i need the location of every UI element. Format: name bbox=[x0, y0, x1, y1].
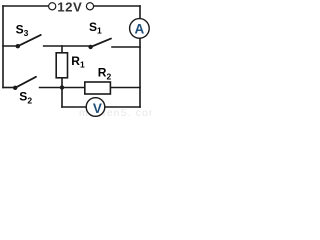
junction node below R1 bbox=[60, 85, 64, 89]
voltmeter V bbox=[86, 98, 105, 117]
battery terminal right bbox=[86, 3, 93, 10]
wire middle row: S3 contact to S1 pivot bbox=[44, 45, 89, 47]
switch S1 blade bbox=[91, 39, 111, 47]
wire right rail upper (top corner to ammeter) bbox=[139, 6, 141, 18]
wire middle row: left rail to S3 pivot bbox=[3, 45, 18, 47]
background bbox=[0, 0, 152, 119]
switch S3 pivot dot bbox=[16, 44, 20, 48]
wire left rail bbox=[2, 6, 4, 88]
wire bottom row: R2 to right rail bbox=[111, 87, 141, 89]
wire bottom row: S2 contact to R2 bbox=[40, 87, 85, 89]
switch S3 blade bbox=[18, 35, 41, 46]
wire R1 bottom lead bbox=[61, 78, 63, 88]
resistor R1 bbox=[56, 53, 67, 78]
battery terminal left bbox=[49, 3, 56, 10]
wire voltmeter branch: V circle to right rail bbox=[105, 106, 140, 108]
switch S2 pivot dot bbox=[13, 86, 17, 90]
wire bottom row: left rail to S2 pivot bbox=[3, 87, 15, 89]
resistor R2 bbox=[85, 82, 111, 94]
svg-text:A: A bbox=[135, 21, 145, 36]
wire voltmeter branch: corner to V circle bbox=[62, 106, 86, 108]
wire right rail lower (ammeter to bottom corner) bbox=[139, 39, 141, 107]
svg-text:V: V bbox=[93, 101, 102, 116]
wire voltmeter branch vertical bbox=[61, 88, 63, 108]
switch S2 blade bbox=[15, 77, 36, 88]
switch S1 pivot dot bbox=[88, 45, 92, 49]
ammeter A bbox=[130, 19, 150, 39]
wire top rail left segment bbox=[3, 5, 48, 7]
wire top rail right segment bbox=[94, 5, 140, 7]
wire middle row: S1 contact to right rail bbox=[112, 46, 140, 48]
svg-text:12V: 12V bbox=[57, 0, 82, 15]
wire R1 top lead bbox=[61, 46, 63, 53]
